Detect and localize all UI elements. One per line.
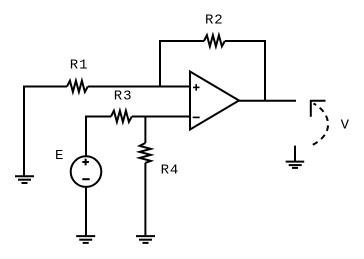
wire - input net from E node [86, 117, 111, 157]
ground (output reference) [286, 146, 305, 168]
resistor R2 [204, 35, 225, 46]
svg-text:R4: R4 [161, 163, 180, 179]
wire output [239, 100, 296, 102]
svg-text:R3: R3 [114, 88, 133, 104]
wire feedback branch left drop [160, 41, 204, 87]
wire + input net left segment [24, 87, 67, 177]
svg-text:V: V [341, 118, 350, 134]
svg-text:R1: R1 [70, 57, 89, 73]
wire E bottom [85, 187, 87, 236]
op-amp U1 [190, 72, 239, 130]
svg-text:R2: R2 [205, 13, 224, 29]
ground (E source) [76, 236, 95, 243]
ground (left, + input reference) [15, 176, 34, 183]
resistor R1 [67, 81, 88, 92]
ground (R4) [136, 236, 155, 243]
voltage arrow V [311, 101, 328, 145]
wire feedback branch right drop [225, 41, 265, 101]
resistor R4 [140, 143, 151, 163]
wire node to R4 [144, 117, 146, 144]
voltage source E [71, 156, 102, 187]
svg-text:E: E [55, 148, 64, 164]
wire R4 to ground [144, 163, 146, 236]
wire R3 to op-amp [132, 116, 190, 118]
wire R1 to op-amp [88, 86, 190, 88]
resistor R3 [111, 111, 132, 122]
